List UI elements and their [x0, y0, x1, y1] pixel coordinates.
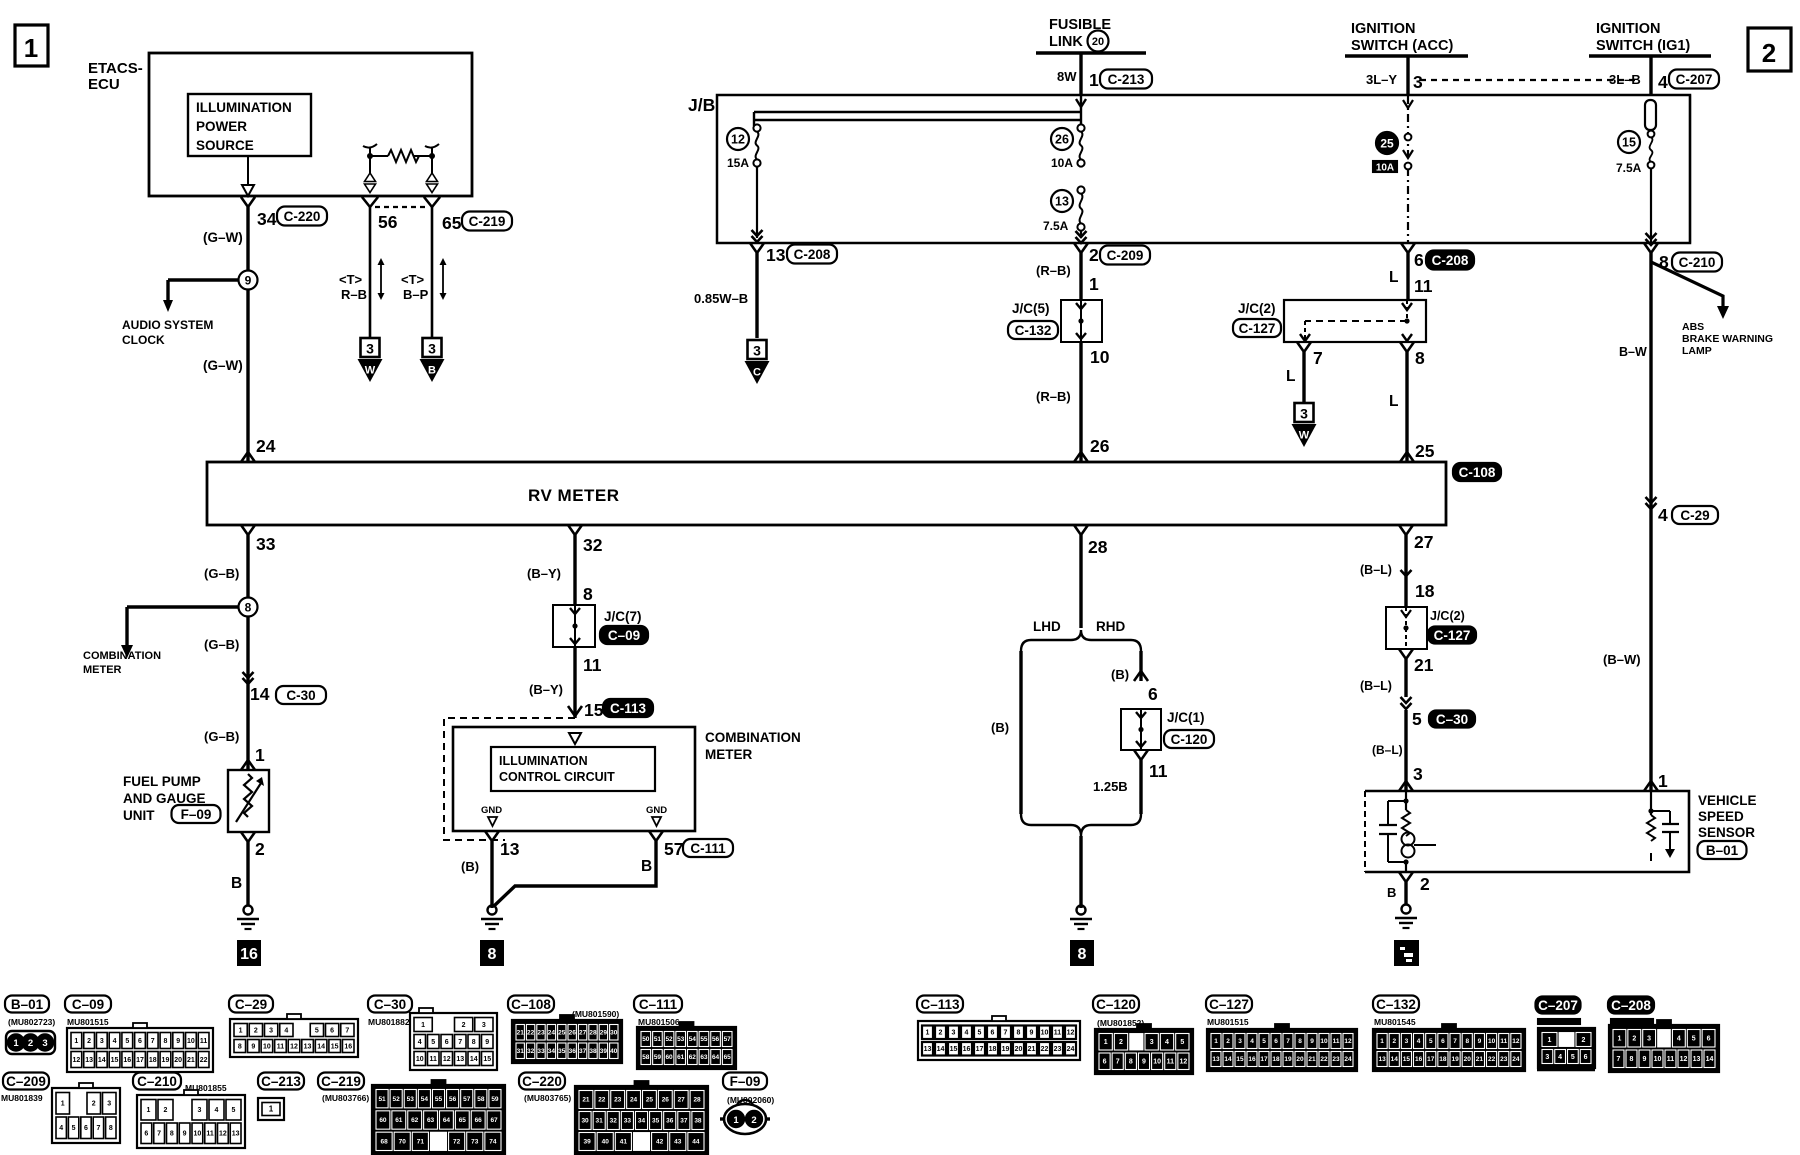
svg-text:MU801882: MU801882	[368, 1017, 410, 1027]
svg-text:27: 27	[579, 1029, 587, 1036]
svg-text:7: 7	[96, 1125, 100, 1132]
svg-text:C-113: C-113	[610, 701, 647, 716]
svg-text:59: 59	[491, 1096, 499, 1103]
ground ref 12	[1395, 941, 1418, 965]
svg-text:56: 56	[378, 212, 398, 232]
svg-text:IGNITION: IGNITION	[1351, 21, 1415, 37]
svg-text:26: 26	[1055, 133, 1069, 147]
svg-text:57: 57	[664, 839, 683, 859]
svg-text:2: 2	[164, 1107, 168, 1114]
svg-text:15: 15	[950, 1046, 958, 1053]
svg-text:23: 23	[537, 1029, 545, 1036]
label T B-P	[401, 272, 429, 302]
svg-text:65: 65	[442, 213, 462, 233]
svg-text:19: 19	[162, 1057, 170, 1064]
dest triangle C	[745, 340, 770, 384]
svg-text:ECU: ECU	[88, 76, 120, 93]
svg-text:25: 25	[1415, 441, 1435, 461]
svg-text:7: 7	[1313, 348, 1323, 368]
svg-text:13: 13	[304, 1043, 312, 1050]
svg-text:17: 17	[1427, 1056, 1435, 1063]
svg-text:14: 14	[250, 684, 270, 704]
svg-text:54: 54	[421, 1096, 429, 1103]
svg-text:70: 70	[399, 1139, 407, 1146]
svg-text:51: 51	[654, 1036, 662, 1043]
svg-text:28: 28	[693, 1097, 701, 1104]
svg-text:16: 16	[240, 946, 258, 963]
svg-text:L: L	[1286, 368, 1295, 385]
fuel pump and gauge unit box	[228, 770, 269, 832]
svg-text:11: 11	[1414, 276, 1433, 296]
svg-text:25: 25	[558, 1029, 566, 1036]
svg-text:(B): (B)	[461, 859, 479, 874]
svg-text:4: 4	[1677, 1036, 1681, 1043]
svg-text:1: 1	[13, 1038, 19, 1049]
svg-text:3: 3	[1238, 1038, 1242, 1045]
label B-L 1	[1360, 563, 1392, 577]
svg-text:24: 24	[1344, 1056, 1352, 1063]
junction J/C(2) C-127	[1233, 300, 1426, 342]
svg-text:3: 3	[428, 341, 436, 357]
svg-text:15: 15	[1236, 1056, 1244, 1063]
svg-text:5: 5	[1180, 1039, 1184, 1046]
svg-text:2: 2	[92, 1101, 96, 1108]
svg-text:2: 2	[87, 1038, 91, 1045]
svg-text:LHD: LHD	[1033, 619, 1061, 634]
wire fuse12 to pin13	[752, 167, 763, 242]
svg-text:4: 4	[59, 1125, 63, 1132]
svg-text:J/B: J/B	[688, 95, 715, 115]
svg-text:14: 14	[98, 1057, 106, 1064]
svg-text:C-210: C-210	[1679, 255, 1716, 270]
svg-text:CLOCK: CLOCK	[122, 333, 165, 347]
svg-text:72: 72	[453, 1139, 461, 1146]
svg-text:31: 31	[517, 1048, 525, 1055]
svg-text:C-208: C-208	[794, 247, 831, 262]
svg-text:3: 3	[366, 341, 374, 357]
svg-text:55: 55	[700, 1036, 708, 1043]
svg-text:10A: 10A	[1376, 163, 1394, 174]
svg-text:21: 21	[517, 1029, 525, 1036]
svg-text:4: 4	[418, 1039, 422, 1046]
svg-text:3: 3	[1405, 1038, 1409, 1045]
svg-text:(B): (B)	[991, 720, 1009, 735]
svg-text:11: 11	[1054, 1030, 1062, 1037]
contact symbols to pins 56/65	[365, 156, 438, 193]
svg-text:71: 71	[417, 1139, 425, 1146]
svg-text:20: 20	[174, 1057, 182, 1064]
ground mid	[1070, 906, 1092, 930]
fuel gauge rheostat	[236, 774, 264, 822]
svg-text:1: 1	[255, 745, 265, 765]
svg-text:1: 1	[269, 1105, 274, 1114]
svg-text:36: 36	[569, 1048, 577, 1055]
svg-text:11: 11	[430, 1056, 438, 1063]
svg-text:53: 53	[407, 1096, 415, 1103]
svg-text:15: 15	[331, 1043, 339, 1050]
svg-text:C–209: C–209	[6, 1074, 46, 1089]
svg-text:64: 64	[443, 1117, 451, 1124]
pin 24 fork	[241, 452, 255, 462]
pin 1 vss	[1644, 771, 1668, 791]
svg-text:73: 73	[471, 1139, 479, 1146]
svg-text:21: 21	[582, 1097, 590, 1104]
svg-text:2: 2	[254, 1027, 258, 1034]
svg-text:32: 32	[583, 535, 603, 555]
pin 6 blacked connector	[1401, 243, 1474, 270]
node 9	[239, 271, 258, 290]
svg-text:65: 65	[459, 1117, 467, 1124]
svg-text:C-220: C-220	[284, 209, 321, 224]
ground ref 16	[238, 941, 260, 965]
junction J/C(1) C-120	[1121, 709, 1214, 750]
svg-text:50: 50	[642, 1036, 650, 1043]
svg-text:(G–B): (G–B)	[204, 637, 239, 652]
svg-text:C–111: C–111	[639, 997, 678, 1012]
svg-text:23: 23	[1332, 1056, 1340, 1063]
svg-text:J/C(7): J/C(7)	[604, 609, 642, 624]
svg-text:0.85W–B: 0.85W–B	[694, 291, 748, 306]
svg-text:3L–B: 3L–B	[1609, 72, 1641, 87]
svg-text:30: 30	[581, 1118, 589, 1125]
svg-text:19: 19	[1284, 1056, 1292, 1063]
svg-text:37: 37	[579, 1048, 587, 1055]
svg-text:FUEL PUMP: FUEL PUMP	[123, 774, 201, 789]
svg-text:1.25B: 1.25B	[1093, 779, 1128, 794]
svg-text:12: 12	[731, 133, 745, 147]
label T R-B	[339, 272, 367, 302]
svg-text:6: 6	[330, 1027, 334, 1034]
GND terminals	[481, 805, 667, 826]
wire pin 28	[1074, 525, 1108, 628]
LHD wire B	[991, 651, 1021, 814]
svg-text:SPEED: SPEED	[1698, 809, 1744, 824]
svg-text:14: 14	[317, 1043, 325, 1050]
svg-text:3: 3	[952, 1030, 956, 1037]
svg-text:ILLUMINATION: ILLUMINATION	[196, 100, 292, 115]
svg-text:53: 53	[677, 1036, 685, 1043]
svg-text:C-213: C-213	[1108, 72, 1145, 87]
svg-text:1: 1	[733, 1115, 739, 1126]
connector table C-220	[519, 1073, 708, 1155]
svg-text:57: 57	[724, 1036, 732, 1043]
svg-text:10: 10	[263, 1043, 271, 1050]
svg-text:4: 4	[1558, 1054, 1562, 1061]
pin 56	[362, 197, 398, 232]
svg-text:24: 24	[548, 1029, 556, 1036]
svg-text:10: 10	[193, 1131, 201, 1138]
svg-text:SOURCE: SOURCE	[196, 138, 254, 153]
ignition switch IG1 label	[1596, 21, 1690, 54]
vehicle speed sensor label	[1698, 793, 1757, 859]
svg-text:2: 2	[1089, 245, 1099, 265]
svg-text:13: 13	[456, 1056, 464, 1063]
svg-text:14: 14	[937, 1046, 945, 1053]
wire 3L-Y	[1366, 56, 1423, 96]
svg-text:40: 40	[610, 1048, 618, 1055]
svg-text:26: 26	[569, 1029, 577, 1036]
svg-text:C–120: C–120	[1096, 997, 1136, 1012]
svg-text:(G–B): (G–B)	[204, 729, 239, 744]
svg-text:MU801545: MU801545	[1374, 1017, 1416, 1027]
svg-text:56: 56	[449, 1096, 457, 1103]
svg-text:8: 8	[170, 1131, 174, 1138]
svg-text:13: 13	[924, 1046, 932, 1053]
fuse 26 10A	[1051, 124, 1085, 170]
svg-text:15A: 15A	[727, 156, 749, 170]
svg-text:RHD: RHD	[1096, 619, 1125, 634]
fuel pump label	[123, 774, 221, 823]
svg-text:24: 24	[256, 436, 276, 456]
svg-text:8: 8	[488, 946, 497, 963]
svg-text:15: 15	[111, 1057, 119, 1064]
svg-text:C–108: C–108	[511, 997, 551, 1012]
svg-text:C-208: C-208	[1432, 253, 1469, 268]
pin 13	[485, 831, 520, 859]
svg-text:SWITCH (ACC): SWITCH (ACC)	[1351, 38, 1453, 54]
svg-text:4: 4	[1250, 1038, 1254, 1045]
svg-text:6: 6	[1441, 1038, 1445, 1045]
svg-text:C-127: C-127	[1239, 321, 1276, 336]
svg-text:10: 10	[416, 1056, 424, 1063]
svg-text:35: 35	[652, 1118, 660, 1125]
wire 1.25B	[1093, 760, 1141, 814]
svg-text:C-132: C-132	[1015, 323, 1052, 338]
svg-text:4: 4	[1417, 1038, 1421, 1045]
svg-text:6: 6	[138, 1038, 142, 1045]
svg-text:8: 8	[583, 584, 593, 604]
wire fuse13 to pin2	[1076, 230, 1087, 243]
svg-text:21: 21	[187, 1057, 195, 1064]
svg-text:9: 9	[183, 1131, 187, 1138]
pin 8 C-210	[1644, 243, 1722, 272]
svg-text:7: 7	[1617, 1056, 1621, 1063]
J/B box	[717, 95, 1690, 243]
junction JC C-127 blacked	[1386, 607, 1476, 649]
ACC dashed wire in J/B	[1403, 96, 1413, 243]
svg-text:SENSOR: SENSOR	[1698, 825, 1755, 840]
svg-text:3: 3	[1413, 764, 1423, 784]
svg-text:4: 4	[215, 1107, 219, 1114]
svg-text:61: 61	[395, 1117, 403, 1124]
svg-text:BRAKE WARNING: BRAKE WARNING	[1682, 333, 1773, 345]
svg-text:27: 27	[678, 1097, 686, 1104]
svg-text:C–30: C–30	[374, 997, 406, 1012]
svg-text:3: 3	[198, 1107, 202, 1114]
LHD RHD labels	[1033, 619, 1125, 634]
svg-text:AUDIO SYSTEM: AUDIO SYSTEM	[122, 318, 213, 332]
svg-text:METER: METER	[705, 747, 753, 762]
svg-text:55: 55	[435, 1096, 443, 1103]
svg-text:11: 11	[200, 1038, 208, 1045]
svg-text:5: 5	[1429, 1038, 1433, 1045]
pin 25 fork	[1400, 452, 1414, 462]
svg-text:B–01: B–01	[11, 997, 44, 1012]
svg-text:15: 15	[1403, 1056, 1411, 1063]
ground fuel pump	[237, 906, 259, 930]
svg-text:(B–L): (B–L)	[1372, 743, 1403, 757]
svg-text:5: 5	[72, 1125, 76, 1132]
RHD wire B pin6	[1111, 651, 1158, 704]
svg-text:64: 64	[712, 1054, 720, 1061]
svg-text:1: 1	[74, 1038, 78, 1045]
svg-text:1: 1	[1214, 1038, 1218, 1045]
svg-text:8: 8	[1630, 1056, 1634, 1063]
wire fusible link to J/B	[1057, 53, 1099, 96]
svg-text:COMBINATION: COMBINATION	[705, 730, 801, 745]
bottom bracket	[1021, 814, 1141, 836]
svg-text:MU801515: MU801515	[67, 1017, 109, 1027]
ignition switch ACC label	[1351, 21, 1453, 54]
svg-text:LAMP: LAMP	[1682, 345, 1712, 357]
pin 2 fuel	[241, 832, 265, 859]
svg-text:3: 3	[1647, 1036, 1651, 1043]
svg-text:7.5A: 7.5A	[1043, 219, 1069, 233]
svg-text:33: 33	[537, 1048, 545, 1055]
svg-text:12: 12	[1512, 1038, 1520, 1045]
J/B right edge	[1689, 95, 1691, 243]
svg-text:8: 8	[245, 600, 252, 614]
pin 2 C-209	[1074, 243, 1150, 265]
svg-text:42: 42	[656, 1139, 664, 1146]
svg-text:13: 13	[85, 1057, 93, 1064]
connector table C-208	[1608, 997, 1719, 1073]
connector C-213	[1100, 70, 1152, 89]
svg-text:VEHICLE: VEHICLE	[1698, 793, 1757, 808]
svg-text:35: 35	[558, 1048, 566, 1055]
pin 15 fork	[568, 706, 582, 716]
svg-text:8: 8	[1465, 1038, 1469, 1045]
svg-text:3: 3	[1545, 1054, 1549, 1061]
wire IG1 fuse to bottom	[1646, 168, 1657, 245]
svg-text:7: 7	[1286, 1038, 1290, 1045]
pin 11 JC1	[1134, 750, 1168, 781]
svg-text:7: 7	[157, 1131, 161, 1138]
wire L to dest	[1286, 352, 1304, 403]
svg-text:1: 1	[24, 33, 38, 63]
wire (G-W) node9 to pin24	[203, 289, 276, 462]
svg-text:J/C(2): J/C(2)	[1430, 609, 1465, 623]
svg-text:10: 10	[1090, 347, 1110, 367]
svg-text:C-30: C-30	[286, 688, 315, 703]
svg-text:1: 1	[1548, 1037, 1552, 1044]
ETACS-ECU box	[149, 53, 472, 196]
wire (G-W) pin34 to node 9	[203, 207, 248, 272]
svg-text:11: 11	[1167, 1059, 1175, 1066]
illumination power source box	[188, 94, 311, 156]
connector C-207	[1669, 70, 1719, 89]
svg-text:58: 58	[477, 1096, 485, 1103]
svg-text:38: 38	[589, 1048, 597, 1055]
svg-text:C–132: C–132	[1376, 997, 1416, 1012]
svg-text:19: 19	[1002, 1046, 1010, 1053]
J/B entry arrow	[1076, 99, 1086, 107]
svg-text:22: 22	[527, 1029, 535, 1036]
svg-text:3: 3	[1413, 72, 1423, 92]
svg-text:2: 2	[751, 1115, 756, 1126]
svg-text:C–127: C–127	[1209, 997, 1249, 1012]
svg-text:(B–W): (B–W)	[1603, 652, 1641, 667]
svg-text:C-207: C-207	[1676, 72, 1713, 87]
svg-text:12: 12	[443, 1056, 451, 1063]
svg-text:F–09: F–09	[730, 1074, 761, 1089]
J/B label	[688, 95, 715, 115]
svg-text:23: 23	[1054, 1046, 1062, 1053]
page index box 2	[1748, 28, 1791, 71]
svg-text:60: 60	[379, 1117, 387, 1124]
svg-text:13: 13	[1378, 1056, 1386, 1063]
svg-text:2: 2	[1762, 38, 1776, 68]
svg-text:C-108: C-108	[1459, 465, 1496, 480]
svg-text:(B): (B)	[1111, 667, 1129, 682]
combination meter dashed outline	[444, 718, 575, 840]
svg-text:5: 5	[1412, 709, 1422, 729]
svg-text:5: 5	[315, 1027, 319, 1034]
svg-text:17: 17	[976, 1046, 984, 1053]
svg-text:38: 38	[694, 1118, 702, 1125]
svg-text:1: 1	[1658, 771, 1668, 791]
svg-text:74: 74	[489, 1139, 497, 1146]
ground comb meter	[481, 906, 503, 930]
wire R-B to JC5	[1036, 253, 1099, 300]
svg-text:9: 9	[176, 1038, 180, 1045]
svg-text:5: 5	[1262, 1038, 1266, 1045]
svg-text:ABS: ABS	[1682, 321, 1704, 333]
svg-text:26: 26	[662, 1097, 670, 1104]
J/B bus bar	[754, 96, 1082, 126]
fusible link label	[1049, 17, 1111, 52]
svg-text:4: 4	[1165, 1039, 1169, 1046]
svg-text:22: 22	[1041, 1046, 1049, 1053]
svg-text:5: 5	[1571, 1054, 1575, 1061]
svg-text:25: 25	[1380, 136, 1394, 150]
wire to ground mid	[1079, 836, 1082, 908]
svg-text:F–09: F–09	[181, 807, 212, 822]
svg-text:<T>: <T>	[339, 272, 363, 287]
svg-text:10A: 10A	[1051, 156, 1073, 170]
combination meter label	[705, 730, 801, 762]
svg-text:(MU803765): (MU803765)	[524, 1093, 571, 1103]
combination meter ref label	[83, 650, 161, 676]
svg-text:14: 14	[1391, 1056, 1399, 1063]
illumination control circuit box	[491, 747, 655, 791]
svg-text:UNIT: UNIT	[123, 808, 155, 823]
svg-text:(B–Y): (B–Y)	[529, 682, 563, 697]
svg-text:36: 36	[666, 1118, 674, 1125]
connector table B-01	[5, 996, 55, 1055]
resistor in ETACS-ECU	[363, 144, 439, 162]
dest triangle W	[358, 338, 383, 382]
svg-text:16: 16	[1415, 1056, 1423, 1063]
svg-text:12: 12	[1180, 1059, 1188, 1066]
svg-text:23: 23	[614, 1097, 622, 1104]
svg-text:11: 11	[277, 1043, 285, 1050]
svg-text:C–220: C–220	[522, 1074, 562, 1089]
svg-text:C-120: C-120	[1171, 732, 1208, 747]
svg-text:7: 7	[151, 1038, 155, 1045]
connector C-113 blacked	[603, 699, 653, 717]
dashed link pins 56-65	[375, 206, 427, 208]
svg-text:6: 6	[445, 1039, 449, 1046]
svg-text:25: 25	[646, 1097, 654, 1104]
svg-text:B–P: B–P	[403, 287, 429, 302]
top bracket	[1021, 630, 1141, 651]
svg-text:1: 1	[239, 1027, 243, 1034]
svg-text:MU801515: MU801515	[1207, 1017, 1249, 1027]
svg-text:10: 10	[1153, 1059, 1161, 1066]
svg-text:20: 20	[1296, 1056, 1304, 1063]
pin 8 JC2	[1400, 342, 1425, 368]
